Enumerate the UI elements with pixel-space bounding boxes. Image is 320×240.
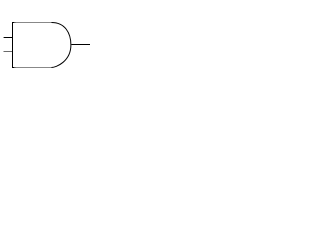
wire output Y [71, 44, 90, 46]
wire input A [4, 37, 13, 39]
wire input B [4, 51, 14, 53]
AND gate U1 [12, 22, 71, 68]
